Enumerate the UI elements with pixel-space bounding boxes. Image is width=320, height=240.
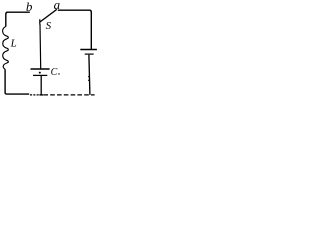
svg-text:C: C	[51, 67, 58, 78]
tiny mark after C	[58, 73, 59, 74]
junction blob at bottom wire	[39, 94, 43, 96]
svg-text:b: b	[26, 0, 33, 14]
bottom dashed wire (fine dashes left of junction)	[30, 94, 39, 96]
svg-text:L: L	[10, 38, 17, 50]
nub artifacts on right rail	[88, 76, 90, 81]
inductor L coil	[3, 27, 9, 70]
battery long plate (+)	[80, 49, 97, 51]
capacitor bottom lead down to junction	[40, 76, 42, 95]
battery short plate (-)	[85, 53, 94, 55]
switch S blade	[40, 10, 56, 22]
switch S pivot post	[39, 19, 41, 24]
wire left rail below coil + bottom-left solid wire	[5, 69, 29, 94]
wire top-left horizontal (b to left corner)	[6, 12, 30, 26]
capacitor C bottom plate	[33, 74, 47, 76]
svg-text:S: S	[46, 20, 52, 32]
capacitor middle dot	[39, 72, 41, 74]
capacitor C top plate	[31, 68, 50, 70]
wire top-right horizontal (a to right corner) and right rail down to battery	[58, 10, 92, 49]
wire switch pivot down to capacitor	[39, 24, 42, 69]
battery bottom lead / right rail down to dashed wire	[89, 55, 90, 95]
bottom dashed wire (long dashes right of junction)	[43, 94, 94, 96]
svg-text:a: a	[54, 0, 61, 12]
